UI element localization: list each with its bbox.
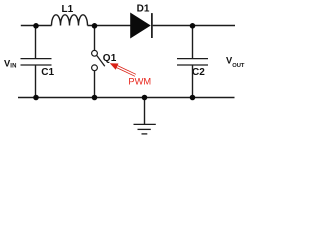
svg-text:VOUT: VOUT — [226, 56, 245, 69]
capacitor C2 — [177, 59, 208, 78]
wire bottom rail — [18, 97, 235, 99]
wire top rail between L1 and D1 — [88, 25, 132, 27]
wire Q1 branch lower — [94, 71, 96, 98]
wire left vertical upper — [35, 26, 37, 59]
inductor L1 — [52, 4, 88, 26]
wire left vertical lower — [35, 65, 37, 98]
svg-text:PWM: PWM — [128, 77, 151, 87]
node junction bottom right — [190, 95, 196, 101]
diode D1 — [131, 4, 152, 38]
ground — [134, 124, 156, 133]
svg-text:L1: L1 — [62, 4, 74, 15]
capacitor C1 — [21, 59, 55, 79]
wire ground stub — [144, 98, 146, 125]
wire right vertical lower — [192, 65, 194, 98]
transistor switch Q1 — [92, 50, 117, 70]
svg-text:C2: C2 — [192, 67, 205, 78]
node junction top middle — [92, 23, 98, 29]
wire top rail right of D1 — [153, 25, 235, 27]
svg-text:C1: C1 — [41, 67, 54, 78]
node junction top left — [33, 23, 39, 29]
svg-text:D1: D1 — [137, 4, 150, 15]
node junction bottom middle — [92, 95, 98, 101]
PWM arrow — [110, 63, 136, 76]
svg-text:VIN: VIN — [4, 58, 17, 69]
node junction bottom left — [33, 95, 39, 101]
svg-text:Q1: Q1 — [103, 53, 117, 64]
wire Q1 branch upper — [94, 26, 96, 51]
wire right vertical upper — [192, 26, 194, 59]
wire top rail left stub — [21, 25, 52, 27]
node junction bottom ground — [142, 95, 148, 101]
node junction top right — [190, 23, 196, 29]
